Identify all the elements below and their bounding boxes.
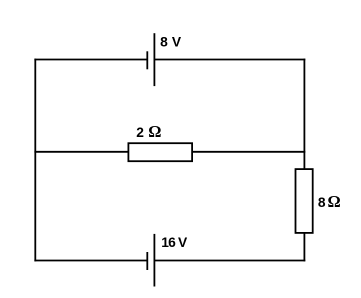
wire: left vertical branch xyxy=(34,59,36,262)
svg-text:8 V: 8 V xyxy=(160,34,182,49)
wire: right vertical lower segment xyxy=(303,233,305,262)
wire: middle right segment from resistor R1 to node xyxy=(192,151,305,153)
battery B2 16V: short plate xyxy=(146,252,148,270)
wire: bottom right segment from battery B2 xyxy=(154,260,305,262)
wire: middle left segment to resistor R1 xyxy=(34,151,128,153)
resistor R1 2ohm: box xyxy=(128,143,192,161)
svg-text:16 V: 16 V xyxy=(161,235,188,250)
battery B1 8V: short plate xyxy=(146,51,148,69)
wire: right vertical upper segment xyxy=(303,59,305,170)
resistor R2 8ohm: box xyxy=(296,169,313,233)
wire: bottom left segment to battery B2 xyxy=(34,260,147,262)
wire: top right segment from battery B1 xyxy=(154,59,305,61)
wire: top left segment to battery B1 xyxy=(34,59,147,61)
svg-text:2: 2 xyxy=(136,125,144,140)
battery B2 16V: long plate xyxy=(153,234,155,287)
svg-text:Ω: Ω xyxy=(148,122,161,141)
svg-text:Ω: Ω xyxy=(328,192,341,211)
svg-text:8: 8 xyxy=(318,195,326,210)
battery B1 8V: long plate xyxy=(153,33,155,86)
